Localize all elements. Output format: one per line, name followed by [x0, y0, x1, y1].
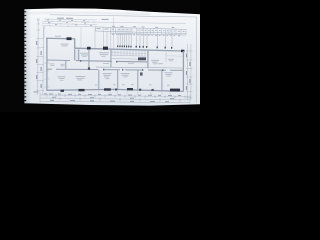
bottom dimension end verticals [40, 93, 190, 104]
interior wall x138 lower [137, 70, 139, 90]
left vertical dimension line 1 [37, 21, 40, 96]
top dimension chain row 3 [42, 24, 97, 25]
right vertical dimension line 1 [187, 44, 189, 100]
bottom dimension ticks [47, 94, 185, 102]
corridor lower wall line B [47, 69, 183, 70]
stair shaft wall right [78, 49, 80, 61]
schedule strip dense separators [118, 28, 181, 36]
title text plan [57, 18, 64, 19]
left extension drops to top wall [81, 27, 111, 48]
room text topmid1 [80, 53, 89, 56]
bump top wall [46, 37, 75, 40]
bottom wall pier B [79, 89, 85, 91]
interior wall x118 lower [117, 70, 119, 90]
interior wall pier x89 [88, 67, 90, 69]
top dimension chain ticks [46, 20, 94, 27]
extension ticks below bottom wall [99, 91, 170, 96]
room text right big [151, 60, 159, 63]
interior wall x89 [88, 49, 90, 69]
corridor door posts [80, 60, 163, 71]
long extension line at grid 113 [112, 16, 114, 48]
room number specks upper rooms [83, 56, 175, 64]
title text scale [102, 18, 109, 21]
bump right wall [74, 39, 76, 48]
corridor upper wall [48, 60, 148, 62]
room number specks above bottom wall [95, 84, 170, 85]
interior wall x111 [110, 50, 112, 68]
paper sheet [24, 8, 200, 105]
bottom wall pier D [127, 88, 133, 90]
top dimension chain row 4 [42, 26, 97, 27]
extra bottom wall piers small [115, 89, 154, 91]
room text bump [61, 44, 69, 47]
tag drop cluster 1 with boxes [118, 34, 131, 46]
corridor label 1 [103, 62, 109, 65]
room number specks lower rooms [106, 76, 171, 79]
binding perforation ticks [24, 11, 26, 101]
top wall pier 1 [87, 47, 91, 50]
bottom outer wall [47, 89, 184, 91]
room text bottom2 [103, 73, 112, 77]
right outer wall [182, 51, 184, 91]
interior wall x148 upper [147, 51, 149, 68]
bottom wall pier C [104, 88, 111, 90]
schedule strip mid line [95, 31, 186, 34]
stair shaft wall left [74, 48, 76, 60]
bottom wall pier A [61, 90, 65, 92]
interior wall x166 upper faint [165, 52, 167, 62]
stall row bottom line [112, 58, 147, 59]
room text bottom1 [76, 76, 86, 80]
left outer wall [46, 38, 48, 91]
paper crease shadow under top edge [26, 13, 150, 15]
bottom dimension text specks [49, 94, 174, 102]
grid bubble bump leader [43, 27, 45, 29]
top dimension text specks [47, 20, 92, 26]
stall dividers [112, 50, 145, 56]
drawing frame right border line [196, 17, 198, 103]
room text topmid2 [99, 52, 109, 55]
left dimension text specks [0, 0, 1, 1]
hatched wall block stalls [138, 57, 146, 60]
right room shelf line faint [166, 55, 183, 57]
bottom dimension row 1 [40, 95, 190, 97]
schedule strip mini-row bottom line [111, 33, 186, 35]
strip header specks [112, 26, 175, 28]
bottom dimension extra specks [44, 94, 181, 103]
room text big left room [58, 76, 66, 80]
drawing frame top border line [50, 15, 197, 17]
tag drop cluster 2 with boxes [137, 34, 148, 46]
tag drops right with boxes [158, 35, 173, 47]
top wall pier 2 [103, 47, 108, 50]
corridor pier block [140, 72, 143, 75]
bottom dimension row 3 [40, 101, 190, 102]
bump text above wall [55, 35, 61, 38]
grid bubble left top [37, 19, 39, 21]
dimension leader bump left [43, 29, 45, 39]
bottom wall pier E large [170, 89, 180, 92]
right dimension ticks [186, 51, 193, 98]
bump top wall pier [67, 37, 72, 40]
corridor lower wall line A [96, 66, 183, 69]
room text bottom4 [165, 72, 173, 75]
top dimension long line row 2 [42, 21, 186, 23]
interior wall x162 lower [161, 70, 163, 90]
schedule strip major separators [95, 27, 186, 35]
schedule strip top line [95, 27, 186, 30]
corridor label 2 [128, 62, 134, 65]
right dimension text specks [186, 54, 191, 91]
left dimension ticks [36, 24, 44, 91]
schedule strip mini-row text [112, 34, 180, 36]
bottom dimension row 2 [40, 98, 190, 100]
top wall corner pier right [181, 50, 184, 53]
room text bottom3 [121, 73, 130, 76]
top dimension chain row 1 [44, 19, 97, 20]
background black letterbox [0, 0, 200, 112]
left wall crossing ticks [45, 63, 50, 87]
room text small room left corridor [50, 64, 55, 67]
interior wall x66 [65, 61, 67, 69]
schedule strip cell text [97, 28, 185, 31]
datum mark left [34, 91, 39, 92]
main top wall [75, 48, 184, 51]
corridor label 3 [158, 62, 163, 65]
right vertical dimension line 2 [190, 44, 192, 100]
stair treads [75, 51, 79, 59]
paper left edge shadow [24, 9, 31, 104]
stall row mid line [112, 53, 147, 54]
interior wall x99 lower [98, 70, 100, 90]
room text small left [61, 64, 65, 66]
left vertical dimension line 2 [42, 29, 45, 95]
